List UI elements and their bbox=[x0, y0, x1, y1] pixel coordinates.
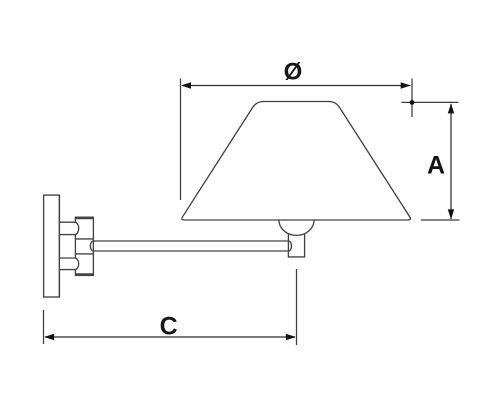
dimension Ø : right arrow bbox=[401, 82, 411, 88]
dimension A : dimension line bbox=[450, 104, 452, 219]
swing arm bbox=[90, 241, 291, 251]
dimension A : top extension line bbox=[402, 101, 459, 103]
dimension Ø : dimension line bbox=[182, 85, 411, 87]
dimension C : right arrow bbox=[286, 334, 296, 340]
dimension A : bottom arrow bbox=[448, 209, 454, 219]
upper mount screw bbox=[59, 222, 78, 234]
dimension C : dimension line bbox=[45, 336, 295, 338]
wall plate bbox=[44, 195, 60, 297]
svg-text:C: C bbox=[160, 313, 178, 341]
dimension A : junction dot bbox=[410, 100, 415, 105]
dimension C : left extension line bbox=[43, 310, 45, 344]
dimension Ø : left extension line bbox=[180, 79, 182, 201]
bulb bbox=[279, 220, 314, 235]
svg-text:Ø: Ø bbox=[284, 59, 303, 86]
dimension C : right extension line bbox=[296, 269, 298, 345]
lamp socket bbox=[288, 233, 304, 257]
hinge block bbox=[75, 217, 93, 275]
dimension Ø : right extension line bbox=[411, 79, 413, 118]
dimension C : left arrow bbox=[44, 334, 54, 340]
lampshade bbox=[182, 102, 411, 221]
wall plate right edge redraw bbox=[58, 195, 60, 297]
svg-text:A: A bbox=[427, 152, 445, 180]
dimension A : bottom extension line bbox=[421, 219, 460, 221]
dimension A : top arrow bbox=[448, 103, 454, 113]
dimension Ø : left arrow bbox=[181, 82, 191, 88]
lower mount screw bbox=[59, 258, 78, 270]
